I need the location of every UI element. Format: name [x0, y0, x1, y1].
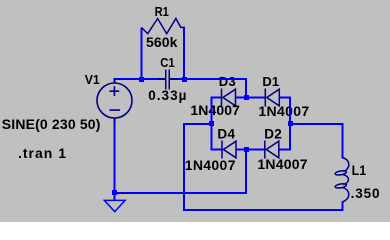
svg-text:D4: D4 [217, 126, 235, 141]
svg-text:1N4007: 1N4007 [185, 157, 236, 173]
svg-text:V1: V1 [85, 72, 100, 87]
svg-text:1N4007: 1N4007 [258, 103, 309, 119]
svg-text:D3: D3 [219, 74, 236, 89]
svg-text:SINE(0 230 50): SINE(0 230 50) [2, 116, 101, 132]
svg-text:C1: C1 [160, 55, 175, 70]
svg-text:560k: 560k [146, 34, 178, 50]
svg-text:L1: L1 [352, 163, 367, 178]
svg-text:D1: D1 [262, 74, 279, 89]
svg-text:.350: .350 [351, 186, 381, 201]
svg-text:.tran 1: .tran 1 [18, 145, 67, 161]
svg-text:R1: R1 [155, 4, 169, 19]
svg-text:0.33µ: 0.33µ [148, 88, 187, 103]
svg-text:D2: D2 [264, 126, 282, 141]
